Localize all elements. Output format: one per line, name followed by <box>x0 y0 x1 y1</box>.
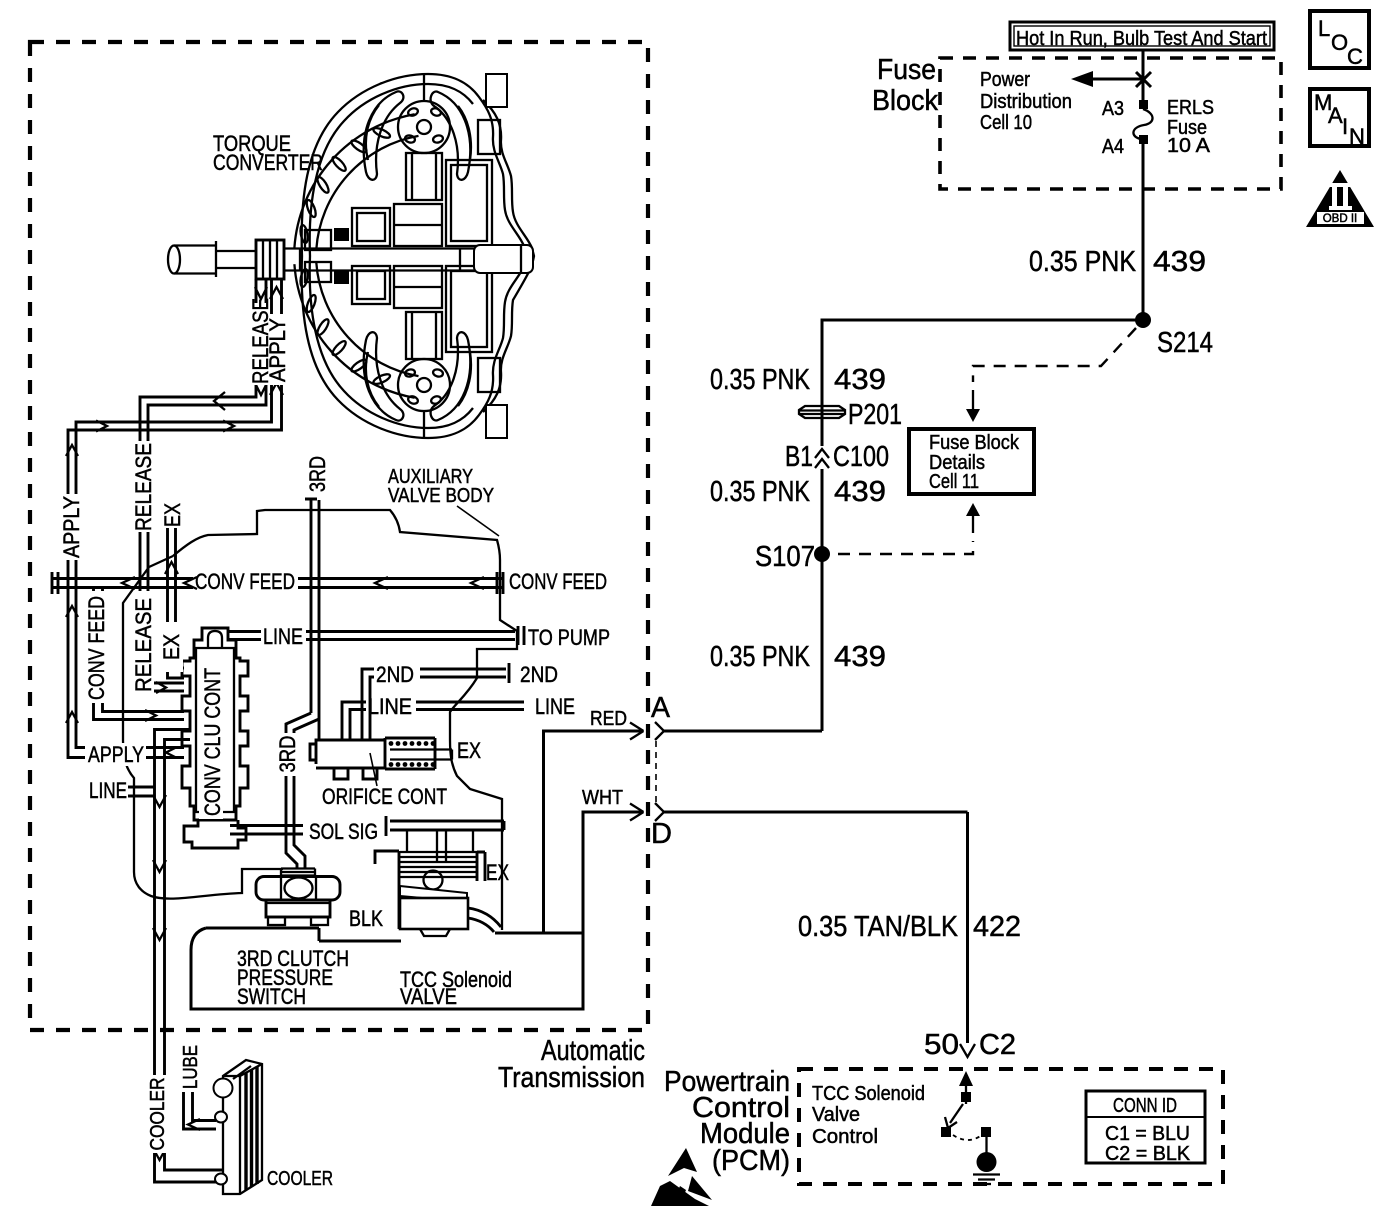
fuse ERLS <box>1133 109 1152 139</box>
svg-text:COOLER: COOLER <box>267 1167 333 1190</box>
label 0.35 PNK 439 (second) <box>710 364 886 396</box>
cooler radiator <box>214 1060 263 1194</box>
PCM dashed box <box>799 1069 1223 1184</box>
PCM switch contact <box>941 1092 991 1140</box>
svg-text:Cell 10: Cell 10 <box>980 111 1032 134</box>
svg-text:D: D <box>651 818 672 850</box>
fuse block dashed box <box>940 58 1281 189</box>
arrow into details box (up) <box>966 503 980 533</box>
fuse block details box <box>909 429 1034 494</box>
svg-text:COOLER: COOLER <box>146 1078 169 1151</box>
flow arrows left pipes <box>66 287 484 1160</box>
connector C2 pin 50 <box>924 1029 1016 1061</box>
svg-text:439: 439 <box>834 641 886 673</box>
fuse terminal A3 <box>1139 100 1148 109</box>
pipe COOLER <box>155 730 221 1183</box>
svg-text:RELEASE: RELEASE <box>131 598 156 692</box>
auxiliary valve body outline <box>123 510 517 930</box>
damper hub bottom <box>398 312 450 438</box>
svg-text:Valve: Valve <box>812 1103 860 1126</box>
terminal D of connector <box>651 803 968 850</box>
svg-text:RED: RED <box>590 707 627 730</box>
svg-text:Distribution: Distribution <box>980 90 1072 113</box>
pipe EX <box>168 528 185 678</box>
PCM driver arrow up <box>959 1071 973 1104</box>
pump vane bottom right <box>431 332 471 420</box>
connector C100 pin B1 <box>785 441 889 473</box>
pipe LINE to pump <box>228 626 524 645</box>
svg-text:CONV FEED: CONV FEED <box>195 569 295 594</box>
svg-text:EX: EX <box>160 503 185 527</box>
svg-text:Block: Block <box>872 85 938 117</box>
svg-text:50: 50 <box>924 1029 959 1061</box>
svg-text:439: 439 <box>1153 246 1206 278</box>
converter inner shell <box>310 84 473 256</box>
svg-text:EX: EX <box>486 860 509 885</box>
arrow into details box (down) <box>966 390 980 422</box>
svg-text:0.35 PNK: 0.35 PNK <box>710 641 811 673</box>
wire S107 down to A <box>710 641 886 673</box>
mask converter labels <box>251 303 287 385</box>
wire from hot box to fuse <box>1142 50 1145 101</box>
converter cover outer wall <box>483 100 534 412</box>
wire RED from solenoid to A <box>544 723 644 934</box>
svg-text:BLK: BLK <box>349 906 383 931</box>
label TORQUE CONVERTER <box>213 131 323 175</box>
PCM ground <box>973 1137 1000 1184</box>
svg-text:TCC Solenoid: TCC Solenoid <box>812 1082 925 1105</box>
svg-text:P201: P201 <box>848 399 902 431</box>
svg-text:WHT: WHT <box>582 786 623 809</box>
connector P201 <box>799 399 902 431</box>
svg-text:Hot In Run, Bulb Test And Star: Hot In Run, Bulb Test And Start <box>1016 27 1267 50</box>
terminal A of connector <box>651 692 822 740</box>
svg-text:422: 422 <box>973 911 1021 943</box>
clutch pack blocks bottom <box>305 262 500 392</box>
svg-text:Cell 11: Cell 11 <box>929 470 979 493</box>
splice S214 <box>1135 312 1151 328</box>
label Fuse Block <box>872 54 938 117</box>
svg-text:C: C <box>1347 44 1363 69</box>
hot-in-run box <box>1010 22 1274 50</box>
ESD symbol <box>651 1148 712 1206</box>
svg-text:(PCM): (PCM) <box>712 1145 790 1177</box>
label AUXILIARY VALVE BODY <box>388 465 499 536</box>
turbine vane bottom left <box>364 332 404 420</box>
svg-text:O: O <box>1331 30 1348 55</box>
svg-text:3RD: 3RD <box>275 736 300 773</box>
svg-text:L: L <box>1318 16 1330 41</box>
svg-text:3RD: 3RD <box>305 456 330 492</box>
pipe 2ND <box>362 663 509 740</box>
pipe CONV FEED branch <box>94 588 185 720</box>
svg-text:APPLY: APPLY <box>59 496 84 558</box>
svg-text:Control: Control <box>812 1125 878 1148</box>
svg-text:APPLY: APPLY <box>88 742 144 767</box>
pipe RELEASE from converter <box>140 279 256 691</box>
ring gear band arcs <box>294 114 414 248</box>
wire TAN/BLK 422 down to C2 <box>966 812 969 1043</box>
TCC solenoid valve drawing <box>375 830 501 936</box>
converter mounting tab bottom <box>486 405 507 438</box>
label TCC Solenoid Valve Control <box>812 1082 925 1148</box>
dashed ref S107 to fuse block details <box>838 541 973 554</box>
CONN ID table <box>1086 1091 1205 1165</box>
dashed connector body A-D <box>655 741 657 803</box>
svg-text:B1: B1 <box>785 441 813 473</box>
svg-text:LUBE: LUBE <box>179 1045 202 1089</box>
pipe SOL SIG <box>230 816 504 836</box>
dashed ref S214 to fuse block details <box>973 328 1136 382</box>
turbine vane top left <box>364 91 404 179</box>
svg-text:Fuse: Fuse <box>877 54 936 86</box>
label Powertrain Control Module (PCM) <box>664 1066 790 1177</box>
svg-text:CONN ID: CONN ID <box>1113 1094 1177 1117</box>
vane inner lines <box>366 105 471 160</box>
3rd clutch pressure switch <box>256 869 340 926</box>
pipe CONV FEED main <box>52 572 503 594</box>
svg-text:C2 = BLK: C2 = BLK <box>1105 1142 1190 1165</box>
svg-text:N: N <box>1349 124 1365 149</box>
input shaft <box>168 240 533 279</box>
svg-text:0.35 PNK: 0.35 PNK <box>710 364 811 396</box>
arrow to power distribution <box>1071 71 1151 87</box>
svg-text:EX: EX <box>457 738 481 763</box>
pipe LUBE <box>184 1092 217 1129</box>
wire S214 to P201 branch <box>822 320 1143 731</box>
svg-text:A3: A3 <box>1102 97 1124 120</box>
wire PNK 439 from fuse to S214 <box>1142 143 1145 320</box>
svg-text:I: I <box>1342 114 1348 139</box>
svg-text:LINE: LINE <box>263 624 303 649</box>
svg-text:A: A <box>1328 103 1343 128</box>
converter outer shell <box>302 74 526 256</box>
svg-text:CONV FEED: CONV FEED <box>84 596 109 700</box>
svg-text:APPLY: APPLY <box>265 318 290 382</box>
svg-text:439: 439 <box>834 364 886 396</box>
svg-text:LINE: LINE <box>368 694 412 719</box>
label 0.35 PNK 439 (third) <box>710 476 886 508</box>
svg-text:0.35 TAN/BLK: 0.35 TAN/BLK <box>798 911 959 943</box>
label 3RD CLUTCH PRESSURE SWITCH <box>237 946 349 1009</box>
svg-text:0.35 PNK: 0.35 PNK <box>710 476 811 508</box>
svg-text:Transmission: Transmission <box>498 1062 645 1094</box>
leader orifice cont <box>370 753 377 786</box>
clutch pack blocks top <box>305 120 500 250</box>
svg-text:C2: C2 <box>979 1029 1016 1061</box>
splice S107 <box>814 546 830 562</box>
pipe 3RD long <box>305 499 319 740</box>
label TCC Solenoid VALVE <box>400 967 512 1009</box>
svg-text:LINE: LINE <box>89 778 127 803</box>
white label masks <box>59 441 327 1153</box>
svg-text:RELEASE: RELEASE <box>131 443 156 531</box>
wire solenoid output bus <box>495 932 583 935</box>
svg-text:10 A: 10 A <box>1167 134 1210 157</box>
pipe 3RD jog down <box>286 713 319 869</box>
svg-text:VALVE: VALVE <box>400 984 457 1009</box>
torque converter <box>168 74 534 438</box>
label Automatic Transmission <box>498 1035 645 1094</box>
pipe LINE lower <box>342 702 524 740</box>
svg-text:OBD II: OBD II <box>1323 213 1358 225</box>
damper hub top <box>398 74 450 200</box>
automatic transmission dashed box <box>30 42 648 1030</box>
svg-text:A: A <box>651 692 671 724</box>
svg-text:Power: Power <box>980 68 1030 91</box>
svg-text:2ND: 2ND <box>520 662 558 687</box>
label ERLS Fuse 10 A <box>1167 96 1214 157</box>
svg-text:439: 439 <box>834 476 886 508</box>
svg-text:CONV FEED: CONV FEED <box>509 569 607 594</box>
pipe LINE to cooler <box>128 787 155 796</box>
converter mounting tab top <box>486 74 507 107</box>
svg-text:SWITCH: SWITCH <box>237 984 306 1009</box>
svg-text:S107: S107 <box>755 541 815 573</box>
svg-text:EX: EX <box>159 634 184 660</box>
svg-text:ORIFICE CONT: ORIFICE CONT <box>322 784 447 809</box>
wire BLK bus <box>206 928 401 941</box>
label 0.35 PNK 439 (top) <box>1029 246 1206 278</box>
svg-text:C100: C100 <box>833 441 889 473</box>
svg-text:VALVE BODY: VALVE BODY <box>388 484 494 507</box>
icon MAIN <box>1310 89 1369 149</box>
valve CONV CLU CONT <box>182 628 248 848</box>
valve ORIFICE CONT <box>310 738 452 779</box>
pump vane top right <box>431 92 471 180</box>
svg-text:CONV CLU CONT: CONV CLU CONT <box>200 668 225 816</box>
svg-text:2ND: 2ND <box>376 662 414 687</box>
label Power Distribution Cell 10 <box>980 68 1072 134</box>
svg-text:A4: A4 <box>1102 135 1124 158</box>
icon LOC <box>1310 11 1369 69</box>
svg-text:SOL SIG: SOL SIG <box>309 819 378 844</box>
svg-text:CONVERTER: CONVERTER <box>213 150 323 175</box>
pipe APPLY from converter <box>76 279 272 748</box>
fuse terminal A4 <box>1139 135 1148 144</box>
svg-text:0.35 PNK: 0.35 PNK <box>1029 246 1137 278</box>
icon OBD II <box>1306 170 1374 227</box>
svg-text:LINE: LINE <box>535 694 575 719</box>
wire WHT from switch loop to D <box>191 804 644 1010</box>
svg-text:S214: S214 <box>1157 327 1213 359</box>
svg-text:TO PUMP: TO PUMP <box>528 625 610 650</box>
